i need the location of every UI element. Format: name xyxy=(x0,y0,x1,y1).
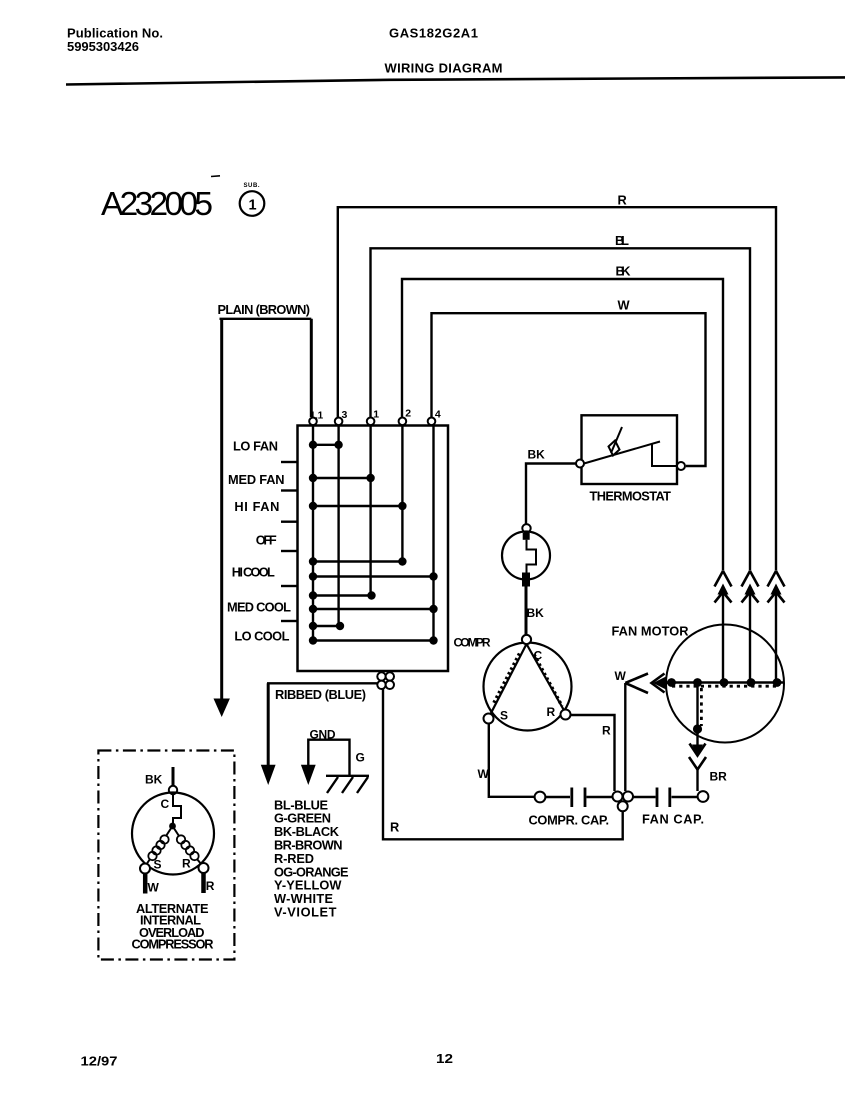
terminal L1 xyxy=(309,411,323,426)
wire column L1 xyxy=(312,425,314,640)
disconnect BK at fan motor xyxy=(715,571,732,683)
svg-text:BK: BK xyxy=(616,264,632,279)
tick xyxy=(281,521,297,523)
svg-text:2: 2 xyxy=(405,408,411,420)
svg-text:1: 1 xyxy=(249,198,257,214)
svg-text:R: R xyxy=(182,856,191,870)
compr cap terminal xyxy=(535,792,546,803)
fan motor body xyxy=(666,625,784,743)
terminal 3 xyxy=(335,409,348,425)
node W label xyxy=(618,298,631,313)
node BK label xyxy=(616,264,632,279)
wire W lead down to junction xyxy=(624,683,626,791)
compressor terminal S xyxy=(484,709,509,724)
wire junction to fan cap xyxy=(633,796,656,798)
alt compressor motor body xyxy=(132,793,214,875)
CAPS AND JUNCTION xyxy=(383,689,708,839)
wire R loop (terminal 3 to fan motor) xyxy=(338,207,776,570)
thermostat sensor element xyxy=(609,427,623,456)
wire BK thermostat to overload xyxy=(526,464,576,525)
wire R bottom return xyxy=(383,689,623,839)
svg-text:12/97: 12/97 xyxy=(81,1054,118,1069)
alternate compressor enclosure xyxy=(98,751,234,960)
switch row MED COOL a xyxy=(309,591,376,599)
compressor start winding xyxy=(490,644,527,716)
svg-text:LO COOL: LO COOL xyxy=(234,629,289,644)
node BK label alt xyxy=(145,773,163,787)
wire column 3 xyxy=(337,425,339,626)
alt internal overload xyxy=(169,794,181,829)
tick xyxy=(281,461,297,463)
switch row LO COOL label xyxy=(234,629,289,644)
svg-text:RIBBED (BLUE): RIBBED (BLUE) xyxy=(275,687,366,702)
wire overload to compressor C xyxy=(525,586,528,635)
node G label xyxy=(356,751,365,765)
svg-text:W: W xyxy=(615,669,627,683)
node R label xyxy=(618,193,627,208)
alt caption xyxy=(132,901,214,952)
svg-text:COMPR. CAP.: COMPR. CAP. xyxy=(529,812,610,827)
terminal 2 xyxy=(399,408,412,426)
svg-text:MED FAN: MED FAN xyxy=(228,472,285,487)
alt run winding coil xyxy=(173,826,202,865)
node BK label 2 xyxy=(527,606,545,620)
svg-text:C: C xyxy=(161,797,170,811)
svg-text:HI FAN: HI FAN xyxy=(234,499,279,514)
SWITCH BOX xyxy=(214,302,491,717)
switch row HI FAN xyxy=(234,499,406,514)
junction block xyxy=(613,792,634,812)
HEADER xyxy=(66,26,845,85)
switch row LO FAN xyxy=(233,438,343,453)
disconnect BR below fan motor xyxy=(689,733,727,791)
disconnect W at fan motor left xyxy=(615,669,669,693)
svg-text:R: R xyxy=(602,723,611,737)
svg-text:BK: BK xyxy=(145,773,163,787)
THERMOSTAT label xyxy=(590,488,672,503)
svg-text:BK: BK xyxy=(527,606,545,620)
svg-text:BL: BL xyxy=(615,233,629,248)
svg-text:FAN CAP.: FAN CAP. xyxy=(642,812,704,827)
svg-text:R: R xyxy=(206,879,215,893)
svg-text:BK: BK xyxy=(528,447,546,461)
switch row HI COOL b xyxy=(309,572,438,580)
svg-text:THERMOSTAT: THERMOSTAT xyxy=(590,488,672,503)
svg-text:MED COOL: MED COOL xyxy=(227,599,291,614)
wire BK lead alt xyxy=(172,767,175,786)
svg-text:WIRING DIAGRAM: WIRING DIAGRAM xyxy=(385,60,503,75)
wire RIBBED (BLUE) label lead xyxy=(267,683,378,702)
winding taps xyxy=(667,678,781,734)
wire GND bracket xyxy=(301,740,350,785)
svg-text:S: S xyxy=(154,857,162,871)
FOOTER xyxy=(81,1051,454,1069)
svg-text:FAN MOTOR: FAN MOTOR xyxy=(612,623,689,638)
switch row LO COOL b xyxy=(309,636,438,644)
fan motor aux winding xyxy=(698,683,702,735)
alt terminal R xyxy=(182,856,209,873)
svg-text:V-VIOLET: V-VIOLET xyxy=(274,905,337,920)
svg-text:R: R xyxy=(618,193,627,208)
svg-text:W: W xyxy=(618,298,631,313)
WIRE LOOPS TOP xyxy=(338,193,776,571)
COMPRESSOR AREA xyxy=(478,635,615,797)
wire blue lead down to arrow xyxy=(261,683,276,785)
wire to cap xyxy=(546,796,571,798)
disconnect BL at fan motor xyxy=(742,571,759,683)
wire W lead alt xyxy=(145,874,159,895)
THERMOSTAT AREA xyxy=(502,415,685,634)
tick xyxy=(281,620,297,622)
fan motor main winding xyxy=(667,683,784,687)
wire R lead alt xyxy=(204,873,215,893)
tick xyxy=(281,585,297,587)
compressor terminal R xyxy=(547,705,571,720)
node GND label xyxy=(310,727,336,741)
wire L1 drop xyxy=(310,319,313,417)
wire BL loop (terminal 1 to fan motor) xyxy=(371,248,751,570)
node BL label xyxy=(615,233,629,248)
svg-text:G: G xyxy=(356,751,365,765)
wire column 4 xyxy=(432,425,434,640)
node COMPR label xyxy=(454,635,491,649)
svg-text:SUB.: SUB. xyxy=(244,183,260,189)
terminal 4 xyxy=(428,409,441,426)
thermostat switch blade xyxy=(584,442,660,464)
wire column 1 xyxy=(369,425,371,595)
switch row HI COOL a xyxy=(309,557,407,565)
disconnect R at fan motor xyxy=(768,571,785,683)
switch row HI COOL label xyxy=(232,564,275,579)
svg-text:HI COOL: HI COOL xyxy=(232,564,275,579)
svg-text:1: 1 xyxy=(373,409,379,421)
svg-text:S: S xyxy=(500,709,508,723)
wire R from R terminal to junction xyxy=(571,715,615,791)
switch row MED COOL b xyxy=(309,605,438,613)
wire PLAIN (BROWN) label lead xyxy=(218,302,312,319)
switch row OFF xyxy=(256,532,277,547)
svg-text:W: W xyxy=(148,880,160,894)
FAN MOTOR AREA xyxy=(612,571,785,791)
terminal 1 xyxy=(367,409,379,426)
svg-text:L1: L1 xyxy=(312,411,324,422)
tick xyxy=(281,489,297,491)
alt start winding coil xyxy=(146,826,173,865)
svg-text:R: R xyxy=(547,705,556,719)
svg-text:OFF: OFF xyxy=(256,532,277,547)
alt terminal C xyxy=(161,786,178,811)
legend color codes xyxy=(274,797,328,812)
FAN MOTOR label xyxy=(612,623,689,638)
wire W from S to compr cap xyxy=(478,724,535,797)
wire W loop (terminal 4 to thermostat) xyxy=(432,313,706,466)
svg-text:12: 12 xyxy=(436,1051,453,1066)
thermostat terminal left xyxy=(576,460,584,468)
thermostat body xyxy=(582,415,678,484)
wire brown lead down to arrow xyxy=(214,319,230,717)
svg-text:A232005: A232005 xyxy=(101,186,213,223)
svg-text:PLAIN (BROWN): PLAIN (BROWN) xyxy=(218,302,311,317)
switch row LO COOL a xyxy=(309,622,344,630)
ground symbol xyxy=(326,776,369,793)
wire BK loop (terminal 2 to fan motor) xyxy=(402,279,723,571)
svg-text:BR: BR xyxy=(710,769,728,783)
switch row MED COOL label xyxy=(227,599,291,614)
diagram id A232005 xyxy=(101,176,264,223)
capacitor COMPR.CAP xyxy=(529,788,613,828)
svg-text:LO FAN: LO FAN xyxy=(233,438,278,453)
fan cap terminal xyxy=(698,791,709,802)
node BK label xyxy=(528,447,546,461)
svg-text:W: W xyxy=(478,767,490,781)
svg-text:GAS182G2A1: GAS182G2A1 xyxy=(389,26,478,41)
connector block 4 circles xyxy=(377,672,394,689)
LEFT LEGEND / GND / ALT COMPRESSOR xyxy=(98,683,377,959)
thermostat contact xyxy=(652,444,677,467)
compressor terminal C xyxy=(522,635,543,662)
selector switch body xyxy=(298,426,449,672)
switch row MED FAN xyxy=(228,472,375,487)
tick xyxy=(281,550,297,552)
compressor run winding xyxy=(527,644,566,713)
alt terminal S xyxy=(140,857,162,873)
compressor motor body xyxy=(484,643,572,731)
svg-text:4: 4 xyxy=(435,409,441,421)
overload protector body xyxy=(502,532,550,587)
svg-text:R: R xyxy=(390,820,399,835)
svg-text:3: 3 xyxy=(342,409,348,421)
overload terminal xyxy=(522,524,530,532)
svg-text:COMPRESSOR: COMPRESSOR xyxy=(132,937,214,952)
capacitor FAN CAP xyxy=(642,788,704,827)
svg-text:5995303426: 5995303426 xyxy=(67,39,139,54)
thermostat terminal right xyxy=(677,462,685,470)
wire column 2 xyxy=(401,425,403,561)
svg-text:COMPR: COMPR xyxy=(454,635,491,649)
